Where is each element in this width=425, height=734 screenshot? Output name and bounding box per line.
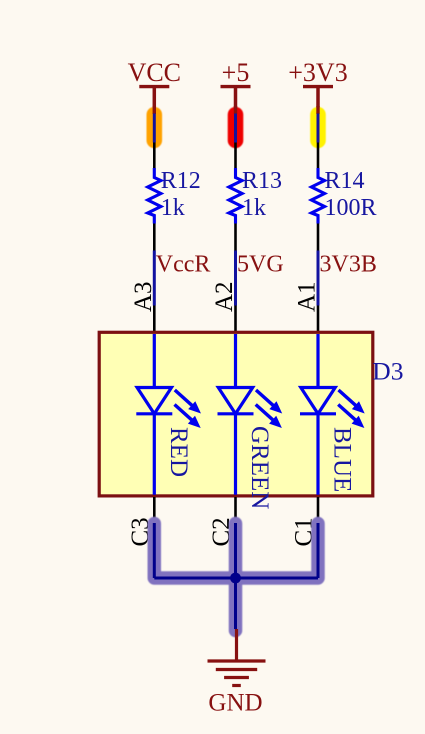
pin A1 of D3 — [317, 306, 320, 334]
pin 2 of R14 — [317, 224, 320, 251]
svg-text:VCC: VCC — [128, 58, 181, 87]
orange capsule marker on VCC net — [147, 107, 163, 148]
power port +3V3 — [288, 58, 347, 116]
wire net 5VG — [234, 251, 237, 306]
power port VCC — [128, 58, 181, 116]
svg-text:A2: A2 — [211, 281, 238, 312]
svg-text:D3: D3 — [372, 357, 403, 386]
pin C3 of D3 — [153, 497, 156, 523]
LED part D3 body (yellow box) — [99, 332, 373, 496]
pin C1 of D3 — [317, 497, 320, 523]
pin C2 of D3 — [234, 497, 237, 523]
svg-text:R12: R12 — [161, 168, 201, 194]
resistor R12 (1k) — [148, 168, 201, 224]
pin 2 of R13 — [234, 224, 237, 251]
svg-text:BLUE: BLUE — [329, 427, 356, 492]
pin 1 of R14 — [317, 143, 320, 169]
wire C1 cathode to bus — [317, 523, 320, 578]
pin 1 of R12 — [153, 143, 156, 169]
LED BLUE element of D3 — [300, 334, 365, 495]
wire bus horizontal — [154, 577, 318, 580]
svg-text:+3V3: +3V3 — [288, 58, 347, 87]
resistor R14 (100R) — [311, 168, 376, 224]
svg-text:A1: A1 — [294, 281, 321, 312]
svg-text:R13: R13 — [242, 168, 282, 194]
resistor R13 (1k) — [229, 168, 282, 224]
wire net 3V3B — [317, 251, 320, 306]
yellow capsule marker on +3V3 net — [310, 107, 326, 148]
junction node — [230, 573, 241, 584]
wire C2 cathode down to ground — [234, 523, 237, 629]
red capsule marker on +5 net — [228, 107, 244, 148]
svg-text:VccR: VccR — [156, 252, 211, 278]
LED RED element of D3 — [136, 334, 201, 495]
pin A3 of D3 — [153, 306, 156, 334]
svg-text:3V3B: 3V3B — [320, 252, 377, 278]
pin A2 of D3 — [234, 306, 237, 334]
wire (+5 to R13 top) — [234, 106, 237, 114]
svg-text:5VG: 5VG — [237, 252, 284, 278]
svg-text:+5: +5 — [222, 58, 250, 87]
wire (+3V3 to R14 top) — [316, 106, 319, 114]
svg-text:GND: GND — [208, 690, 262, 717]
svg-text:1k: 1k — [242, 195, 266, 221]
svg-text:GREEN: GREEN — [246, 426, 273, 509]
svg-text:R14: R14 — [325, 168, 365, 194]
svg-text:A3: A3 — [130, 281, 157, 312]
pin 1 of R13 — [234, 143, 237, 169]
power port +5 — [221, 58, 251, 116]
ground symbol GND — [208, 629, 266, 717]
svg-text:1k: 1k — [161, 195, 185, 221]
wire net VccR — [153, 251, 156, 306]
wire (VCC to R12 top) — [153, 106, 156, 114]
GND net highlight (thick purple) — [154, 524, 318, 579]
LED GREEN element of D3 — [218, 334, 283, 509]
svg-text:RED: RED — [165, 427, 192, 477]
svg-text:100R: 100R — [325, 195, 377, 221]
pin 2 of R12 — [153, 224, 156, 251]
wire C3 cathode to bus — [153, 523, 156, 578]
